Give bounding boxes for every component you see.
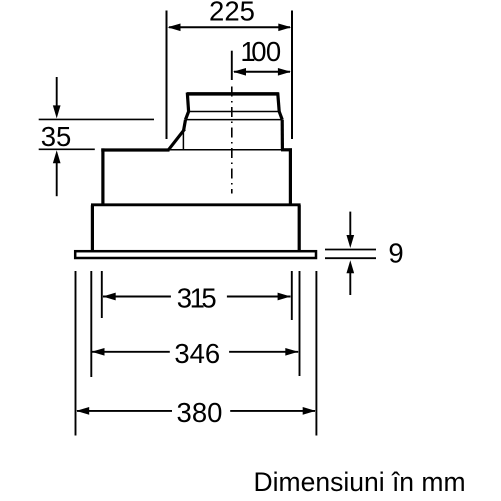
dim 9 arrow down bbox=[349, 212, 351, 237]
collar ridge line 1 bbox=[189, 111, 280, 113]
collar left hidden edge bbox=[182, 130, 184, 149]
upper body left edge bbox=[101, 148, 104, 205]
hood top surface left bbox=[101, 148, 169, 151]
dim 346 line left segment bbox=[92, 351, 170, 353]
lower body left edge bbox=[91, 205, 94, 250]
dim 380 line right segment bbox=[230, 410, 315, 412]
dim 35 reference line lower bbox=[39, 148, 95, 150]
centerline dash-dot bbox=[231, 87, 233, 194]
dim 346 arrow right bbox=[285, 348, 298, 356]
dim 346 extension line left bbox=[90, 271, 92, 377]
upper body right edge bbox=[289, 148, 292, 205]
lower body right edge bbox=[298, 205, 301, 250]
dim 225 line bbox=[169, 26, 290, 28]
body step line bbox=[91, 203, 301, 206]
dim 225 extension line right bbox=[291, 11, 293, 140]
dim 346 arrow left bbox=[92, 348, 105, 356]
dim 100 arrow left bbox=[233, 68, 246, 76]
dim 380 arrow right bbox=[303, 407, 316, 415]
svg-text:35: 35 bbox=[41, 121, 72, 152]
dim 315 line left segment bbox=[103, 296, 171, 298]
dim 35 arrow up bbox=[56, 162, 58, 196]
hood top surface under collar bbox=[170, 149, 283, 151]
collar left lower side bbox=[184, 120, 186, 131]
collar cap right side bbox=[278, 93, 280, 112]
dim 35 arrow down bbox=[56, 77, 58, 107]
dim 315 arrow left bbox=[103, 293, 116, 301]
dim 9 arrow up bbox=[349, 272, 351, 295]
dim 380 arrow left bbox=[76, 407, 89, 415]
collar right lower side bbox=[281, 120, 284, 150]
collar ridge line 2 bbox=[186, 119, 283, 121]
dim 9 reference line lower bbox=[325, 257, 376, 259]
dim 315 extension line right bbox=[291, 271, 293, 320]
svg-text:9: 9 bbox=[388, 238, 403, 269]
hood top surface right ledge bbox=[281, 148, 292, 151]
dim 225 arrow left bbox=[168, 23, 181, 31]
collar cap left side bbox=[187, 93, 188, 112]
svg-text:Dimensiuni în mm: Dimensiuni în mm bbox=[254, 467, 466, 497]
svg-text:225: 225 bbox=[209, 0, 255, 27]
collar left shoulder bbox=[186, 112, 189, 120]
dim 380 line left segment bbox=[77, 410, 172, 412]
dim 100 line bbox=[234, 71, 290, 73]
svg-text:0: 0 bbox=[251, 36, 266, 67]
dim 346 line right segment bbox=[229, 351, 298, 353]
svg-text:5: 5 bbox=[201, 283, 216, 314]
dim 380 extension line left bbox=[75, 271, 77, 436]
dim 225 extension line left bbox=[166, 11, 168, 140]
dim 9 reference line upper bbox=[325, 249, 376, 251]
dim 380 extension line right bbox=[315, 271, 317, 436]
hood duct collar cap top bbox=[187, 92, 279, 96]
dim 315 arrow right bbox=[278, 293, 291, 301]
dim 225 arrow right bbox=[278, 23, 291, 31]
collar left flare bbox=[169, 129, 185, 150]
dim 315 line right segment bbox=[227, 296, 291, 298]
svg-text:0: 0 bbox=[266, 36, 281, 67]
collar right shoulder bbox=[279, 112, 282, 120]
dim 100 arrow right bbox=[278, 68, 291, 76]
bottom flange bbox=[75, 251, 316, 258]
dim 315 extension line left bbox=[101, 271, 103, 318]
svg-text:346: 346 bbox=[174, 338, 220, 369]
dim 35 reference line upper bbox=[39, 118, 154, 120]
dim 346 extension line right bbox=[299, 271, 301, 376]
centerline solid start bbox=[231, 51, 233, 80]
svg-text:380: 380 bbox=[177, 397, 223, 428]
